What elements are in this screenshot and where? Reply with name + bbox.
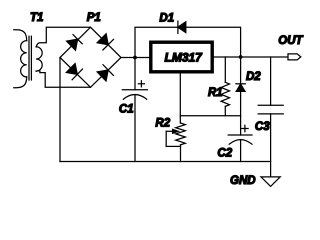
ground symbol	[261, 177, 280, 187]
bridge diode top-to-right (triangle + bar)	[97, 34, 113, 50]
wire bridge left vertex down to ground rail	[59, 58, 61, 162]
wire ADJ horizontal rail	[180, 115, 240, 117]
capacitor C2	[228, 135, 252, 144]
svg-text:D2: D2	[246, 71, 261, 83]
svg-text:C2: C2	[217, 148, 232, 160]
wire R1 bottom to ADJ rail	[224, 106, 226, 115]
node A junction dot (input node)	[133, 56, 137, 60]
transformer T1	[14, 30, 42, 88]
wire secondary bottom lead to bridge bottom vertex	[36, 71, 90, 88]
wire D1 branch: up from node A, across top, down to output node	[135, 27, 241, 57]
core line left	[28, 36, 30, 80]
wire secondary top lead to bridge top vertex	[36, 27, 90, 47]
svg-text:T1: T1	[30, 12, 43, 24]
wire C3 bottom through ground rail to GND symbol	[270, 114, 272, 177]
svg-text:C3: C3	[255, 121, 270, 133]
wire LM317 output to OUT terminal	[214, 56, 288, 58]
node B junction dot (output node)	[239, 55, 243, 59]
primary winding arcs	[21, 41, 27, 77]
diode D1 (points left: cathode bar at left)	[178, 21, 186, 33]
capacitor C3	[258, 105, 283, 114]
diode D2 (zener pointing up: cathode bar on top)	[236, 84, 245, 92]
wire C2 bottom to ground rail	[240, 140, 242, 162]
wire D2 top from output node	[240, 57, 242, 84]
R2 wiper arrow	[166, 129, 180, 146]
primary top lead hook	[14, 30, 27, 41]
op-amp/regulator U1 LM317 box	[151, 42, 212, 72]
bridge diode left-to-bottom (triangle + bar)	[66, 64, 82, 80]
primary bottom lead hook	[14, 77, 27, 88]
svg-text:C1: C1	[119, 104, 134, 116]
svg-text:OUT: OUT	[278, 35, 303, 47]
wire ground rail	[60, 161, 271, 163]
secondary winding arcs	[36, 47, 42, 71]
C1 plus sign	[138, 81, 144, 87]
svg-text:GND: GND	[230, 175, 256, 187]
wire bridge right vertex to LM317 input	[121, 57, 149, 59]
wire C1 bottom to ground rail	[134, 95, 136, 162]
capacitor C1	[122, 90, 147, 100]
wire R1 branch down from output wire	[224, 57, 226, 82]
svg-text:R1: R1	[208, 87, 223, 99]
svg-text:D1: D1	[159, 12, 174, 24]
resistor R1 zigzag	[221, 82, 229, 106]
C2 plus sign	[242, 125, 248, 131]
bridge rectifier P1 diamond	[60, 27, 121, 87]
core line right	[30, 36, 32, 80]
svg-text:R2: R2	[155, 117, 170, 129]
OUT terminal symbol	[288, 54, 301, 60]
svg-text:P1: P1	[87, 12, 101, 24]
wire C3 top from output wire	[270, 57, 272, 105]
bridge diode left-to-top (triangle + bar)	[67, 35, 83, 51]
wire ADJ pin down from LM317	[179, 72, 181, 123]
capacitor C1 wire from node A down to plate	[134, 58, 136, 90]
wire D2 bottom down to ADJ rail and C2	[240, 91, 242, 135]
wire R2 bottom to ground rail	[180, 145, 182, 162]
svg-text:LM317: LM317	[165, 51, 204, 65]
resistor R2 zigzag (potentiometer)	[176, 123, 186, 145]
bridge diode bottom-to-right (triangle + bar)	[97, 65, 113, 81]
